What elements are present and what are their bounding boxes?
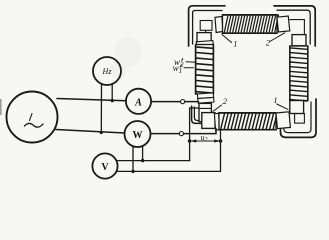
core corner bottom-left outer	[192, 106, 214, 123]
junction dot u2 left	[188, 139, 192, 143]
leader line label 2 top	[270, 33, 285, 42]
connector top-left blocks	[205, 30, 207, 33]
voltmeter V	[92, 153, 117, 178]
scan smudges	[115, 37, 141, 67]
wire left tap vertical	[190, 108, 198, 161]
prime mark w1'	[180, 65, 181, 68]
wire W to terminal	[151, 133, 180, 135]
wire top main: source to ammeter	[57, 99, 126, 101]
accent tick above sine	[30, 114, 33, 121]
paper background	[0, 0, 329, 184]
core corner top-left middle	[193, 11, 222, 45]
wire terminal to bottom winding start	[184, 129, 216, 134]
core corner top-right middle	[277, 10, 310, 44]
core corner top-left outer	[189, 6, 225, 46]
winding top: hatched body	[223, 15, 279, 33]
core corner bottom-right window plate	[295, 114, 305, 124]
winding top: end turn right (tilted)	[277, 16, 290, 32]
svg-text:Hz: Hz	[102, 67, 113, 76]
wire terminal to left winding	[185, 101, 199, 103]
junction dot	[100, 131, 103, 134]
winding left: hatched body	[196, 45, 214, 95]
wire bottom main: source to wattmeter	[56, 130, 125, 134]
ammeter A	[126, 89, 151, 114]
wire W voltage leg right	[142, 147, 144, 161]
winding bottom: end turn left	[214, 113, 219, 130]
winding top section 1-2: end turn left (tilted)	[215, 16, 223, 32]
terminal	[181, 100, 185, 104]
svg-text:V: V	[101, 162, 109, 173]
winding bottom section 2-1: left end block	[202, 113, 215, 129]
wattmeter W	[125, 121, 151, 147]
core corner bottom-right outer	[281, 99, 317, 137]
junction dot u2 right	[219, 139, 223, 143]
winding bottom: end turns right	[276, 112, 290, 129]
wire Hz right leg to top wire	[111, 84, 113, 100]
core corner top-right window edge	[290, 20, 305, 34]
winding left: bottom end block	[199, 103, 211, 121]
junction dot	[111, 99, 114, 102]
svg-text:W: W	[133, 130, 143, 141]
leader line label 2 bottom	[213, 105, 222, 111]
leader line label 1 bottom	[277, 104, 288, 109]
winding right: hatched body	[290, 46, 308, 101]
wire right tap vertical	[220, 130, 222, 172]
winding bottom: hatched body	[219, 113, 277, 130]
winding right: bottom end block	[290, 101, 304, 114]
winding left: end turns bottom	[197, 93, 213, 99]
svg-text:1: 1	[233, 38, 237, 48]
core corner top-right outer	[274, 6, 315, 46]
AC sine symbol	[25, 123, 44, 127]
prime mark w2'	[182, 58, 183, 61]
wire V top to left tap	[117, 160, 189, 162]
AC source G	[7, 92, 58, 143]
frequency meter Hz	[93, 57, 121, 85]
wire W voltage leg left	[132, 147, 134, 172]
core corner bottom-left middle	[194, 107, 212, 121]
leader line label 1 top	[222, 35, 232, 43]
wire Hz left leg to bottom wire	[100, 85, 102, 133]
winding left: end turn top	[196, 41, 213, 46]
terminal	[179, 132, 183, 136]
core corner bottom-right middle	[284, 102, 311, 133]
winding right: top end block	[292, 35, 306, 46]
winding left w': top end block	[197, 33, 211, 42]
u2 dimension annotation	[192, 140, 219, 142]
wire A to terminal	[151, 101, 180, 103]
junction dot W left leg	[131, 170, 134, 173]
svg-text:A: A	[134, 97, 142, 108]
leader line w2'	[186, 61, 196, 64]
core corner top-left window plate	[200, 21, 212, 31]
svg-text:2: 2	[223, 96, 228, 106]
svg-text:2: 2	[266, 38, 271, 48]
leader line w1'	[184, 67, 194, 69]
wire V bottom to right tap	[117, 170, 220, 172]
winding left: block divider	[199, 107, 211, 109]
junction dot W right leg	[141, 159, 144, 162]
